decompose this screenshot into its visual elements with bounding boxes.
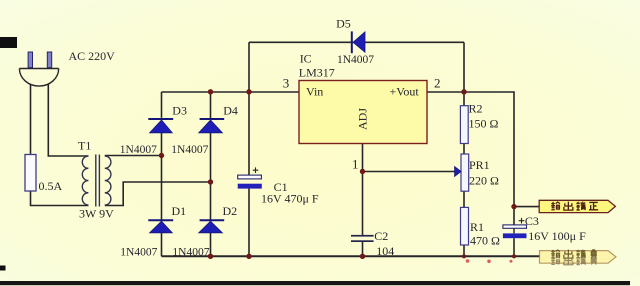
wire vertical rail x=249 top rail to C1 bbox=[248, 42, 250, 175]
svg-text:IC: IC bbox=[300, 52, 312, 66]
svg-text:2: 2 bbox=[434, 76, 441, 91]
border artifact top-left black bar bbox=[0, 37, 17, 48]
svg-text:R2: R2 bbox=[469, 102, 483, 116]
svg-text:LM317: LM317 bbox=[299, 66, 335, 80]
border artifact left-edge small black bar bbox=[0, 266, 6, 271]
svg-text:Vin: Vin bbox=[306, 85, 323, 99]
svg-text:+Vout: +Vout bbox=[390, 85, 420, 99]
svg-text:104: 104 bbox=[376, 244, 394, 258]
transformer T1 bbox=[82, 155, 111, 207]
svg-text:470 Ω: 470 Ω bbox=[470, 234, 500, 248]
potentiometer PR1 bbox=[455, 154, 469, 191]
svg-text:220 Ω: 220 Ω bbox=[469, 174, 499, 188]
diode D1 bbox=[148, 220, 173, 233]
diode D3 bbox=[148, 119, 173, 133]
svg-text:1N4007: 1N4007 bbox=[337, 54, 374, 66]
svg-text:D5: D5 bbox=[336, 17, 351, 31]
svg-text:3: 3 bbox=[283, 76, 290, 91]
svg-text:C3: C3 bbox=[525, 214, 539, 228]
plug P1 bbox=[19, 52, 58, 86]
node junction dots bbox=[159, 89, 517, 259]
svg-text:AC 220V: AC 220V bbox=[69, 49, 116, 63]
svg-text:R1: R1 bbox=[470, 220, 484, 234]
watermark red dots bbox=[466, 259, 513, 263]
svg-text:1N4007: 1N4007 bbox=[120, 144, 157, 156]
wire secondary bottom to bridge right column bbox=[105, 182, 211, 206]
svg-text:150 Ω: 150 Ω bbox=[469, 117, 499, 131]
wire bridge top bus to Vin bbox=[162, 91, 300, 93]
capacitor C1 bbox=[238, 167, 262, 188]
wire +Vout pin 2 to junction and right rail bbox=[427, 92, 514, 225]
svg-text:0.5A: 0.5A bbox=[39, 179, 63, 193]
fuse F1 0.5A bbox=[25, 155, 36, 192]
resistor R1 bbox=[461, 207, 469, 245]
svg-text:PR1: PR1 bbox=[469, 158, 490, 172]
diode D2 bbox=[199, 220, 225, 233]
resistor R2 bbox=[460, 106, 468, 144]
wire plug left lead down to fuse and transformer primary bottom bbox=[30, 84, 32, 155]
wire output positive to flag bbox=[514, 206, 540, 208]
svg-text:1: 1 bbox=[352, 157, 359, 172]
svg-text:D3: D3 bbox=[172, 103, 187, 117]
label flag text 输出端负 faded double print bbox=[551, 250, 596, 258]
wire bridge left column bbox=[161, 92, 163, 118]
border bottom black bar bbox=[0, 281, 630, 285]
capacitor C2 bbox=[351, 235, 374, 242]
svg-text:1N4007: 1N4007 bbox=[120, 246, 157, 258]
svg-text:D1: D1 bbox=[172, 204, 187, 218]
wire ADJ to PR1 wiper bbox=[363, 171, 456, 173]
label flag text 输出端正 bbox=[551, 202, 598, 210]
svg-text:D4: D4 bbox=[223, 103, 238, 117]
wire ground bottom bus bbox=[162, 255, 540, 257]
svg-text:ADJ: ADJ bbox=[356, 108, 370, 130]
wire secondary top to bridge left column bbox=[105, 155, 162, 157]
svg-text:C2: C2 bbox=[374, 229, 388, 243]
wire bridge right column bbox=[210, 92, 212, 118]
wire ADJ pin down through C2 bbox=[362, 144, 364, 236]
capacitor C3 bbox=[503, 218, 527, 238]
diode D5 bbox=[352, 31, 365, 53]
svg-text:16V 470μ F: 16V 470μ F bbox=[261, 192, 319, 206]
svg-text:16V 100μ F: 16V 100μ F bbox=[528, 229, 586, 243]
wire resistor chain column bbox=[463, 42, 465, 105]
diode D4 bbox=[199, 119, 225, 133]
svg-text:3W 9V: 3W 9V bbox=[79, 207, 114, 221]
node output flag negative (faded) bbox=[540, 251, 617, 264]
wire plug right lead down to transformer primary top bbox=[48, 84, 88, 156]
svg-text:1N4007: 1N4007 bbox=[172, 246, 209, 258]
svg-text:D2: D2 bbox=[223, 204, 238, 218]
op-amp regulator U1 LM317 body bbox=[299, 81, 427, 144]
node output flag positive bbox=[539, 200, 615, 212]
svg-text:T1: T1 bbox=[78, 139, 91, 153]
svg-text:1N4007: 1N4007 bbox=[171, 144, 208, 156]
wire top rail with D5 bbox=[249, 41, 464, 43]
